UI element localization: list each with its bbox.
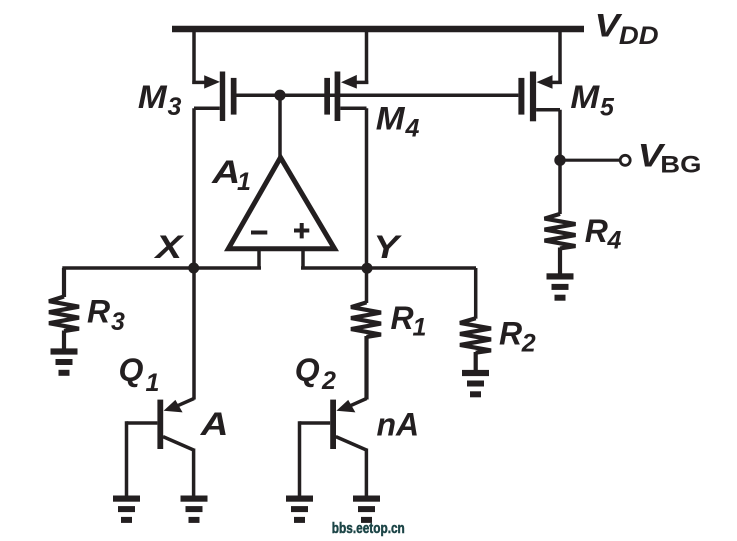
svg-text:Q: Q [295, 352, 320, 388]
svg-text:3: 3 [111, 308, 125, 336]
svg-text:R: R [391, 300, 414, 336]
transistor Q2 [300, 399, 367, 497]
svg-text:A: A [200, 407, 229, 442]
transistor M3 [192, 31, 236, 121]
svg-text:1: 1 [413, 314, 427, 342]
svg-text:BG: BG [660, 150, 701, 178]
label R1 [391, 300, 427, 342]
ground below Q2 base [286, 496, 313, 523]
ground below R4 [547, 273, 574, 300]
wire op-amp minus input stub [257, 249, 261, 268]
transistor M4 [324, 31, 368, 121]
node X [188, 263, 199, 274]
wire M3 drain down through X to Q1 emitter [192, 108, 196, 399]
svg-text:A: A [211, 154, 240, 190]
svg-text:R: R [585, 213, 608, 249]
ground below Q2 collector [353, 496, 380, 523]
svg-text:M: M [376, 102, 406, 138]
ground below R2 [462, 370, 489, 397]
svg-text:R: R [87, 294, 110, 330]
svg-text:M: M [570, 80, 600, 116]
svg-text:4: 4 [405, 114, 420, 142]
svg-text:bbs.eetop.cn: bbs.eetop.cn [332, 521, 405, 537]
node Y [362, 263, 373, 274]
label VBG [638, 138, 702, 178]
wire M4 drain down through Y to R1 [365, 108, 369, 303]
ground below R3 [51, 348, 78, 375]
label A1 [211, 154, 251, 196]
resistor R3 [49, 268, 79, 349]
wire M5 drain down through VBG node to R4 [558, 110, 562, 214]
label R4 [585, 213, 622, 255]
svg-text:X: X [153, 229, 184, 265]
label VDD [595, 8, 659, 50]
node VBG [554, 155, 565, 166]
resistor R1 [351, 302, 381, 399]
wire X horizontal segment [62, 266, 261, 270]
svg-text:DD: DD [619, 21, 659, 50]
resistor R2 [460, 318, 491, 370]
label M3 [138, 80, 182, 121]
wire op-amp output to gate node [278, 95, 282, 160]
resistor R4 [545, 214, 576, 274]
label R2 [499, 316, 536, 358]
wire VBG output [560, 159, 620, 162]
label M5 [570, 80, 615, 121]
op-amp A1 [228, 158, 334, 249]
svg-text:nA: nA [377, 407, 420, 443]
label Q2 [295, 352, 336, 395]
svg-text:1: 1 [237, 168, 251, 196]
svg-text:2: 2 [521, 330, 536, 358]
node gate junction [274, 90, 285, 101]
svg-text:3: 3 [168, 93, 182, 121]
label Q1 [119, 352, 160, 397]
ground below Q1 base [113, 496, 140, 523]
svg-text:Y: Y [373, 230, 402, 265]
wire Y to R2 [474, 268, 478, 319]
VDD rail [172, 26, 584, 32]
svg-text:4: 4 [607, 227, 622, 255]
svg-text:R: R [499, 316, 522, 352]
svg-text:Q: Q [119, 352, 144, 388]
wire gate bus M3-M4-M5 [237, 93, 519, 97]
ground below Q1 collector [181, 496, 208, 523]
wire op-amp plus input stub [301, 249, 305, 268]
transistor Q1 [127, 399, 195, 497]
wire Y horizontal segment [301, 266, 476, 270]
terminal VBG open circle [620, 155, 630, 165]
svg-text:M: M [138, 80, 168, 116]
label R3 [87, 294, 125, 337]
svg-text:5: 5 [600, 93, 615, 121]
svg-text:2: 2 [321, 367, 336, 395]
label M4 [376, 102, 420, 142]
transistor M5 [518, 31, 561, 121]
svg-text:1: 1 [146, 369, 160, 397]
